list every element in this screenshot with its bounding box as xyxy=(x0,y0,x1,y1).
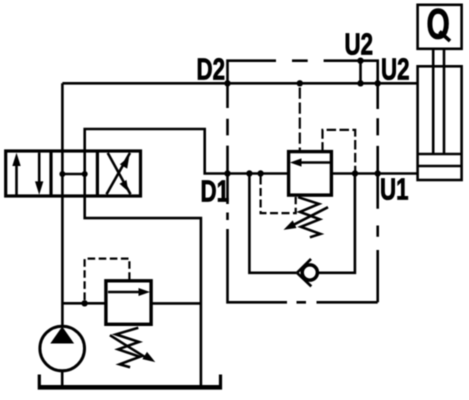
svg-text:D1: D1 xyxy=(201,174,230,208)
svg-text:U2: U2 xyxy=(345,27,373,61)
svg-text:D2: D2 xyxy=(197,52,225,86)
svg-text:U2: U2 xyxy=(381,52,409,86)
svg-text:O: O xyxy=(427,0,450,47)
svg-text:U1: U1 xyxy=(380,172,409,206)
